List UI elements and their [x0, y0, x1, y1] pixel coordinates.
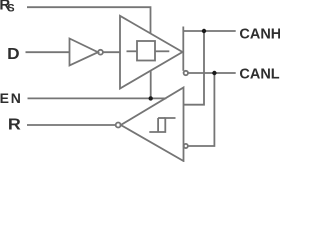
- wire CANL to receiver input: [188, 73, 214, 146]
- wire left stub of block: [127, 50, 138, 52]
- svg-text:S: S: [7, 3, 14, 15]
- wire CANL: [188, 72, 236, 74]
- receiver comparator U3: [121, 88, 184, 162]
- wire CANH to receiver input: [184, 31, 204, 105]
- inverter bubble: [98, 50, 103, 55]
- wire D input: [26, 51, 70, 53]
- junction dot EN: [149, 96, 153, 100]
- hysteresis symbol: [149, 118, 175, 132]
- svg-text:CANL: CANL: [239, 67, 279, 83]
- svg-text:D: D: [7, 45, 19, 63]
- wire EN to driver enable: [150, 71, 152, 99]
- wire CANH: [183, 30, 235, 32]
- junction dot CANL: [212, 71, 216, 75]
- wire inverter to driver: [103, 51, 120, 53]
- wire driver output bus: [182, 27, 184, 71]
- wire R output: [27, 124, 116, 126]
- driver CANL inverting bubble: [184, 71, 188, 75]
- receiver output bubble: [116, 123, 121, 128]
- wire EN input: [28, 97, 167, 99]
- wire right stub of block: [155, 50, 169, 52]
- receiver inverting input bubble: [184, 144, 188, 148]
- svg-text:CANH: CANH: [239, 27, 280, 43]
- svg-text:R: R: [8, 116, 21, 134]
- inverter U2: [70, 39, 99, 66]
- driver op-amp U1: [120, 16, 183, 89]
- wire RS input: [27, 7, 151, 33]
- junction dot CANH: [202, 29, 206, 33]
- svg-text:EN: EN: [0, 90, 23, 106]
- slew control block: [137, 41, 155, 61]
